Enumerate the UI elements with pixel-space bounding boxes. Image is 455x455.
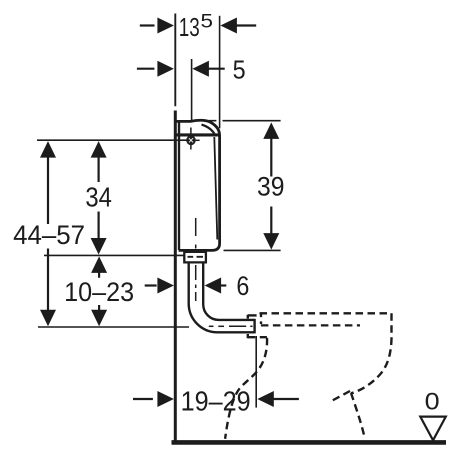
dim 19-29 right tail: [273, 398, 299, 400]
WC pan outline (dashed): [225, 313, 391, 439]
pipe vertical centerline: [195, 218, 197, 301]
dim 39: extension top: [206, 120, 281, 122]
flush pipe inner edge: [203, 262, 254, 320]
toilet top line: [260, 312, 392, 314]
dim 6 right arrow: [205, 278, 222, 294]
spud bottom: [248, 336, 267, 338]
dim 10-23 stem: [98, 272, 100, 311]
dim 13.5 right arrow: [220, 18, 237, 34]
outlet hidden pipe dashes: [188, 256, 204, 258]
dim 19-29 right arrow: [257, 391, 274, 407]
flush pipe end cap: [253, 319, 255, 334]
cistern lid inner curve: [202, 125, 216, 135]
screw head: [186, 136, 196, 146]
dim 19-29 left arrow: [157, 391, 174, 407]
cistern right inner line: [214, 137, 217, 240]
svg-text:0: 0: [425, 388, 440, 415]
svg-text:6: 6: [236, 271, 249, 301]
dim 5 left tail: [137, 68, 155, 70]
wall: [174, 14, 176, 107]
reference line B (outlet level): [44, 254, 184, 256]
dim 44-57 stem: [47, 157, 49, 311]
dim 5 right arrow: [192, 61, 209, 77]
dim 5 left arrow: [157, 61, 174, 77]
zero level triangle: [420, 417, 446, 441]
svg-text:34: 34: [85, 182, 112, 213]
flush pipe white fill: [189, 262, 255, 332]
svg-text:5: 5: [201, 10, 214, 32]
reference line C (pipe level): [38, 326, 189, 328]
cistern outlet fitting: [184, 252, 206, 263]
svg-text:5: 5: [233, 55, 246, 85]
cistern lid bottom: [176, 133, 219, 136]
dim 13.5 left tail: [140, 24, 155, 26]
reference line A (screw height): [37, 139, 187, 141]
dim 34 up arrow: [91, 141, 107, 158]
dim 5 right tail: [208, 68, 225, 70]
svg-text:10–23: 10–23: [64, 277, 134, 307]
toilet pedestal rear: [351, 393, 365, 439]
screw vertical centerline: [190, 128, 192, 150]
toilet rear profile: [351, 313, 392, 393]
dim 13.5: extension line right: [219, 16, 221, 129]
dim 10-23 down arrow: [91, 310, 107, 327]
dim 6 left tail: [145, 284, 157, 286]
cistern left edge: [178, 123, 180, 251]
dim 44-57 up arrow: [40, 141, 56, 158]
dim 39 down arrow: [263, 233, 279, 250]
dim 39 up arrow: [263, 122, 279, 138]
screw crosshair right dash: [196, 139, 200, 141]
dim 6 left arrow: [157, 278, 174, 294]
dim 34 stem: [97, 157, 99, 239]
spud left: [247, 315, 249, 338]
floor: [172, 440, 447, 445]
toilet front vertical: [260, 313, 262, 324]
dim 5: extension line: [191, 59, 193, 120]
flush pipe outer edge: [189, 262, 254, 332]
dim 6 right tail: [220, 284, 226, 286]
dim 10-23 up arrow: [91, 256, 107, 273]
pipe axis extension: [261, 324, 360, 326]
cistern body outline: [176, 120, 220, 250]
svg-text:39: 39: [257, 172, 285, 202]
spud top: [248, 314, 257, 316]
dim 39 stem: [270, 138, 272, 234]
dim 34 down arrow: [91, 238, 107, 255]
pipe horizontal centerline: [209, 325, 253, 327]
dim 13.5 left arrow: [157, 18, 174, 34]
dim 19-29 left tail: [133, 398, 153, 400]
svg-text:44–57: 44–57: [13, 220, 85, 250]
toilet bowl underside: [331, 391, 351, 402]
dim 39: extension bottom: [224, 249, 281, 251]
dim 19-29: extension line: [255, 336, 257, 408]
dim 44-57 down arrow: [40, 310, 56, 327]
dim 13.5 right tail: [236, 24, 256, 26]
svg-text:13: 13: [179, 14, 200, 42]
toilet front curve: [225, 338, 267, 439]
svg-text:19–29: 19–29: [181, 385, 251, 416]
